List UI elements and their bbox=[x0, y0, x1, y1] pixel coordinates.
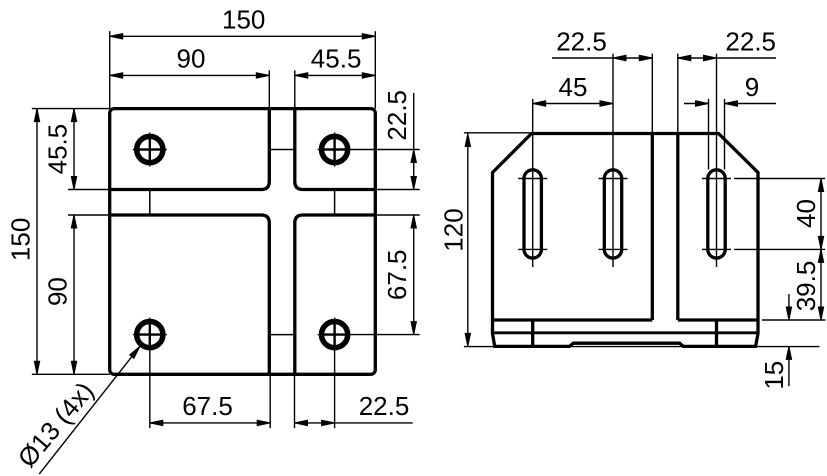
slot obround left bbox=[524, 170, 541, 258]
svg-text:Ø13 (4x): Ø13 (4x) bbox=[12, 376, 100, 473]
slot obround right bbox=[708, 170, 725, 258]
svg-text:67.5: 67.5 bbox=[182, 391, 233, 421]
slot tick marks middle bbox=[599, 178, 628, 180]
front view slot corner bottom-right quadrant bbox=[295, 215, 376, 374]
slot tick marks left bbox=[518, 178, 547, 180]
slot centerline left bbox=[532, 99, 534, 267]
hole bottom-right (Ø13) bbox=[322, 322, 348, 348]
hole top-left (Ø13) bbox=[137, 136, 163, 162]
dim 22.5 right bbox=[413, 93, 415, 190]
side view foot divider left bbox=[531, 320, 534, 346]
dim 67.5 bottom extension line bbox=[269, 374, 271, 428]
svg-text:40: 40 bbox=[791, 199, 821, 228]
dim 45.5 left extension line bbox=[68, 189, 110, 191]
dim 9 bbox=[684, 103, 709, 105]
slot tick mark right bottom + ext bbox=[702, 248, 731, 250]
dim 90 left bbox=[73, 215, 75, 374]
dim 15 bbox=[788, 294, 790, 320]
side view slot right edge bbox=[676, 134, 679, 321]
svg-text:45.5: 45.5 bbox=[42, 124, 72, 175]
dim 22.5 right extension line bbox=[375, 189, 419, 191]
hole bottom-left (Ø13) bbox=[137, 322, 163, 348]
svg-text:67.5: 67.5 bbox=[382, 249, 412, 300]
svg-text:22.5: 22.5 bbox=[725, 26, 776, 56]
slot edge line right arm bbox=[334, 190, 336, 216]
dim 22.5 bottom bbox=[295, 422, 413, 424]
side view outline bbox=[493, 134, 759, 347]
front view plate outline bbox=[110, 109, 376, 375]
svg-text:150: 150 bbox=[5, 218, 35, 261]
dim 39.5 bbox=[820, 249, 822, 320]
dim 150 top extension lines bbox=[109, 31, 111, 108]
svg-text:22.5: 22.5 bbox=[359, 391, 410, 421]
dim 90 left extension line bbox=[68, 214, 110, 216]
side view foot top line bbox=[493, 318, 653, 321]
dim 22.5 side-left extension bbox=[651, 54, 653, 134]
dim 150 left bbox=[36, 109, 38, 375]
dim 22.5 side-right extension bbox=[677, 54, 679, 134]
dim 22.5 bottom extension line bbox=[294, 374, 296, 428]
dim 67.5 right bbox=[413, 215, 415, 335]
svg-text:120: 120 bbox=[438, 208, 468, 251]
dim 22.5 side-right bbox=[678, 57, 776, 59]
side view foot mid line bbox=[493, 331, 759, 334]
dim 150 top bbox=[110, 35, 376, 37]
dim 120 bbox=[467, 134, 469, 347]
dim 120 extension top bbox=[464, 132, 530, 134]
leader line Ø13 bbox=[39, 346, 140, 474]
slot edge line bottom arm bbox=[269, 334, 295, 336]
slot centerline middle bbox=[612, 54, 614, 267]
svg-text:150: 150 bbox=[222, 5, 265, 35]
dim 45.5 top bbox=[295, 74, 376, 76]
hole top-right (Ø13) bbox=[322, 136, 348, 162]
dim 45 side bbox=[533, 103, 613, 105]
dim 67.5 right extension line bbox=[375, 214, 419, 216]
dim 40 bbox=[820, 179, 822, 250]
dim 90 top extension line bbox=[268, 70, 270, 108]
dim 90 top bbox=[110, 74, 270, 76]
side view slot left edge bbox=[651, 134, 654, 321]
dim 9 extension lines bbox=[708, 99, 710, 170]
svg-text:45.5: 45.5 bbox=[311, 44, 362, 74]
ground extension line bottom bbox=[464, 346, 820, 348]
slot centerline right bbox=[716, 54, 718, 267]
foot line extension right bbox=[762, 319, 825, 321]
svg-text:22.5: 22.5 bbox=[382, 90, 412, 141]
svg-text:39.5: 39.5 bbox=[791, 261, 821, 312]
dim 150 left extension lines bbox=[32, 108, 110, 110]
side view foot divider right bbox=[715, 320, 718, 346]
slot edge line top arm bbox=[269, 149, 295, 151]
svg-text:45: 45 bbox=[559, 72, 588, 102]
svg-text:90: 90 bbox=[177, 44, 206, 74]
svg-text:15: 15 bbox=[759, 361, 789, 390]
slot edge line left arm bbox=[149, 190, 151, 216]
dim 45.5 left bbox=[73, 109, 75, 190]
dim 45.5 top extension line bbox=[294, 70, 296, 108]
slot tick mark right top + ext 40 bbox=[702, 178, 731, 180]
svg-text:90: 90 bbox=[42, 277, 72, 306]
dim 22.5 side-left bbox=[552, 57, 652, 59]
front view slot corner top-right quadrant bbox=[295, 109, 376, 190]
front view slot corner bottom-left quadrant bbox=[110, 215, 270, 374]
svg-text:22.5: 22.5 bbox=[556, 26, 607, 56]
svg-text:9: 9 bbox=[745, 72, 759, 102]
front view slot corner top-left quadrant bbox=[110, 109, 270, 190]
dim 67.5 bottom bbox=[150, 422, 270, 424]
slot obround middle bbox=[604, 170, 621, 258]
